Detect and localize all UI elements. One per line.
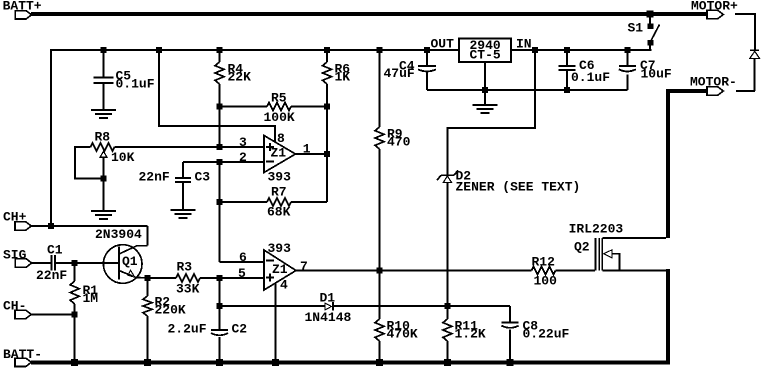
svg-text:7: 7 (300, 259, 308, 274)
svg-text:0.1uF: 0.1uF (571, 70, 610, 85)
node C6 top (564, 47, 570, 53)
svg-text:Z1: Z1 (271, 145, 287, 160)
capacitor C1 (36, 242, 67, 282)
connector MOTOR- (690, 74, 737, 95)
node pin3 line (217, 144, 223, 150)
diode D1 1N4148 (220, 290, 511, 325)
svg-text:10uF: 10uF (641, 66, 672, 81)
svg-text:Q1: Q1 (122, 254, 138, 269)
wire BATT- thick rail (31, 360, 670, 364)
svg-text:1N4148: 1N4148 (305, 310, 352, 325)
resistor R12 (532, 254, 596, 288)
wire capacitor bottom rail (427, 89, 627, 91)
svg-text:22nF: 22nF (139, 169, 170, 184)
svg-text:393: 393 (268, 241, 292, 256)
mosfet Q2 IRL2203 (569, 221, 666, 270)
svg-text:D1: D1 (320, 290, 336, 305)
svg-text:R7: R7 (271, 184, 287, 199)
svg-text:R12: R12 (532, 254, 556, 269)
capacitor C2 (168, 321, 248, 362)
capacitor C4 (384, 49, 437, 90)
node C2 bottom on BATT- (216, 359, 223, 366)
svg-text:47uF: 47uF (384, 66, 415, 81)
node S1 on BATT+ rail (647, 11, 654, 18)
svg-text:C2: C2 (232, 321, 248, 336)
svg-text:ZENER (SEE TEXT): ZENER (SEE TEXT) (456, 179, 581, 194)
node C4 top (424, 47, 430, 53)
resistor R2 (143, 278, 186, 362)
connector CH- (3, 298, 31, 318)
connector MOTOR+ (691, 0, 738, 19)
regulator 2940 CT-5 (431, 36, 532, 62)
node IN rail (532, 47, 538, 53)
capacitor C5 (94, 49, 155, 110)
node pin4 on BATT- (272, 359, 279, 366)
node R5 right (324, 104, 330, 110)
node R9 top (377, 47, 383, 53)
connector SIG (3, 247, 32, 267)
resistor R3 (148, 259, 265, 296)
wire C3 to pin 2 (183, 161, 264, 163)
node R6 top (324, 47, 330, 53)
wire MOTOR- thick to Q2 drain (666, 89, 707, 238)
svg-text:470K: 470K (387, 326, 418, 341)
svg-text:4: 4 (280, 278, 288, 293)
resistor R4 (215, 49, 251, 107)
ground under C5 (91, 110, 116, 118)
connector BATT- (3, 347, 42, 367)
node R4 top (217, 47, 223, 53)
zener diode D2 (437, 168, 580, 306)
svg-text:1M: 1M (83, 291, 99, 306)
svg-text:2N3904: 2N3904 (95, 227, 142, 242)
svg-text:22K: 22K (228, 69, 252, 84)
ground under R8 (91, 211, 116, 219)
connector BATT+ (3, 0, 42, 19)
svg-text:220K: 220K (155, 302, 186, 317)
svg-text:2.2uF: 2.2uF (168, 321, 207, 336)
node R11 bottom on BATT- (444, 359, 451, 366)
wire BATT+ thick rail (31, 12, 707, 16)
wire CH+ to Q1 collector (31, 226, 148, 246)
svg-text:1K: 1K (335, 69, 351, 84)
node R9/R10 on output (377, 268, 383, 274)
node pin2 line (217, 159, 223, 165)
wire Z1b output (296, 270, 532, 272)
wire Q2 source thick down (666, 269, 670, 364)
svg-text:R5: R5 (271, 90, 287, 105)
resistor R11 (443, 306, 486, 362)
svg-text:1.2K: 1.2K (455, 326, 486, 341)
wire rail down to CH+ node (50, 49, 52, 226)
svg-text:C3: C3 (195, 169, 211, 184)
ground under C3 (171, 210, 196, 218)
op-amp Z1 section B (238, 241, 308, 293)
wire R4 bottom to pin 3 (219, 107, 221, 148)
wire IN down to zener D2 (447, 50, 535, 175)
transistor Q1 2N3904 (95, 227, 148, 283)
svg-text:OUT: OUT (431, 36, 455, 51)
wire IN rail right segment (511, 49, 652, 51)
node R3 right / pin 5 (217, 275, 223, 281)
node R1 bottom on BATT- (71, 359, 78, 366)
potentiometer R8 (75, 129, 134, 211)
capacitor C3 (139, 162, 211, 210)
wire MOTOR+ to flyback diode (735, 14, 755, 50)
svg-text:393: 393 (268, 169, 292, 184)
svg-text:100: 100 (534, 273, 558, 288)
svg-text:C1: C1 (47, 242, 63, 257)
connector CH+ (3, 209, 31, 230)
node CH+ junction (48, 223, 54, 229)
svg-text:6: 6 (239, 250, 247, 265)
svg-text:IN: IN (516, 36, 532, 51)
svg-text:R8: R8 (95, 129, 111, 144)
wire 5V rail left segment (51, 49, 459, 51)
resistor R5 (220, 90, 328, 125)
wire C1 to Q1 base (55, 262, 119, 264)
capacitor C8 (502, 306, 570, 362)
svg-text:0.22uF: 0.22uF (523, 326, 570, 341)
node V+ feed (156, 47, 162, 53)
node Q1 base junction (72, 260, 78, 266)
node D1 left (217, 303, 223, 309)
node D1 right / R11 top (444, 303, 450, 309)
wire SIG to C1 (32, 262, 52, 264)
svg-text:10K: 10K (111, 150, 135, 165)
svg-text:470: 470 (387, 134, 411, 149)
node C5 top (101, 47, 107, 53)
node R8 wiper (101, 176, 107, 182)
node R10 bottom on BATT- (376, 359, 383, 366)
resistor R9 (375, 49, 411, 271)
op-amp Z1 section A (239, 131, 311, 185)
wire CH- to R1 column (31, 313, 75, 315)
svg-text:33K: 33K (176, 281, 200, 296)
node regulator ground (482, 87, 488, 93)
svg-text:3: 3 (239, 135, 247, 150)
resistor R1 (70, 263, 98, 362)
wire output column (326, 107, 328, 203)
svg-text:S1: S1 (628, 20, 644, 35)
wire pin 4 to BATT- (275, 284, 277, 363)
svg-text:8: 8 (277, 131, 285, 146)
wire R8 to pin 3 (115, 146, 265, 148)
svg-text:22nF: 22nF (36, 268, 67, 283)
wire pin 6 feed (220, 261, 265, 263)
node R2 bottom on BATT- (144, 359, 151, 366)
node C7 top (624, 47, 630, 53)
capacitor C7 (619, 49, 672, 90)
wire V+ feed to pin 8 (159, 50, 275, 142)
svg-text:CT-5: CT-5 (470, 47, 501, 62)
node C6 bottom (564, 87, 570, 93)
node C8 bottom on BATT- (507, 359, 514, 366)
svg-text:2: 2 (239, 150, 247, 165)
wire pin5 down to C2 (219, 278, 221, 330)
resistor R10 (375, 271, 418, 363)
resistor R6 (323, 49, 351, 107)
svg-text:IRL2203: IRL2203 (569, 221, 624, 236)
ground under regulator (473, 105, 498, 113)
svg-text:100K: 100K (264, 110, 295, 125)
flyback diode across motor (736, 50, 760, 91)
node R7 left (217, 199, 223, 205)
svg-text:Z1: Z1 (272, 262, 288, 277)
node Z1a output (324, 151, 330, 157)
switch S1 (628, 16, 660, 51)
svg-text:68K: 68K (267, 204, 291, 219)
capacitor C6 (559, 49, 611, 90)
wire regulator ground stem (484, 62, 486, 105)
svg-text:R3: R3 (177, 259, 193, 274)
svg-text:Q2: Q2 (574, 239, 590, 254)
node CH- junction (72, 311, 78, 317)
resistor R7 (220, 184, 328, 219)
node R5 left (217, 104, 223, 110)
svg-text:0.1uF: 0.1uF (116, 76, 155, 91)
wire Z1a output (296, 153, 328, 155)
wire pin2 column down to pin6 (219, 162, 221, 262)
node Q1 emitter (145, 275, 151, 281)
svg-text:5: 5 (238, 266, 246, 281)
